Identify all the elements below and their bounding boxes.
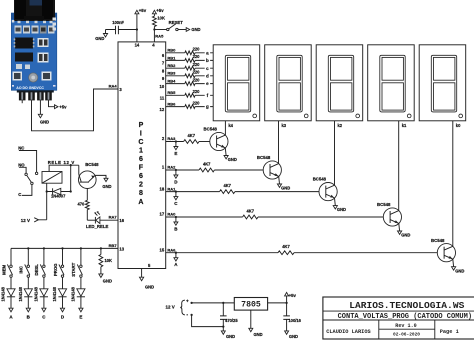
capacitor 470/25	[220, 303, 238, 331]
transistor Q6 BC548 (relay driver)	[79, 162, 100, 189]
svg-text:220: 220	[193, 47, 201, 52]
svg-text:C: C	[138, 139, 143, 146]
svg-text:GND: GND	[102, 184, 111, 189]
svg-text:12: 12	[160, 107, 165, 112]
svg-text:220: 220	[193, 89, 201, 94]
transistor Q2 BC548	[257, 155, 282, 179]
ground (7805 common)	[249, 310, 263, 337]
node D (PROG)	[60, 297, 64, 320]
svg-text:-: -	[186, 312, 188, 318]
svg-text:GND: GND	[254, 332, 263, 337]
svg-text:RB3: RB3	[167, 71, 176, 76]
pin 13 RB7 labels	[109, 243, 125, 252]
7-segment display DISP2 (k1)	[368, 45, 415, 128]
svg-text:k2: k2	[338, 123, 343, 128]
power +5v (pin14)	[135, 8, 147, 29]
svg-text:INC: INC	[19, 266, 24, 273]
node 12 V input terminals	[166, 299, 193, 318]
7-segment display DISP4 (k3)	[265, 45, 312, 128]
node D (pin 1)	[174, 169, 178, 184]
svg-text:GND: GND	[95, 36, 104, 41]
svg-text:RB0: RB0	[167, 48, 176, 53]
svg-text:I: I	[140, 130, 142, 137]
svg-text:MEM: MEM	[1, 264, 6, 274]
svg-text:14: 14	[135, 42, 140, 47]
svg-text:1N4148: 1N4148	[18, 286, 23, 301]
ground (Q3 emitter)	[333, 198, 346, 212]
svg-text:BC548: BC548	[204, 127, 218, 132]
resistor 220 segment c (pin 8 RB2)	[162, 62, 213, 73]
transistor Q5 BC548	[431, 238, 456, 262]
capacitor C1 100nF	[106, 20, 137, 34]
node C relay common	[18, 176, 33, 197]
svg-text:11: 11	[160, 96, 165, 101]
diode 1N4148 (START)	[71, 277, 85, 301]
svg-text:+5v: +5v	[59, 105, 67, 110]
switch RESET	[154, 20, 183, 31]
svg-text:220: 220	[193, 100, 201, 105]
node E (START)	[79, 297, 83, 320]
svg-text:GND: GND	[401, 233, 410, 238]
svg-text:k4: k4	[228, 123, 233, 128]
power +5v (7805 output)	[285, 292, 297, 303]
svg-text:+: +	[186, 299, 189, 304]
svg-text:220: 220	[193, 77, 201, 82]
regulator 7805	[234, 298, 267, 311]
svg-text:+5v: +5v	[289, 293, 297, 298]
svg-text:PROG: PROG	[53, 263, 58, 276]
capacitor 100/16	[283, 303, 301, 331]
wire AO stub	[21, 100, 23, 103]
ground module GND pin	[38, 100, 49, 124]
ground (Q2 emitter)	[277, 176, 290, 190]
svg-text:10K: 10K	[105, 258, 113, 263]
resistor 220 segment b (pin 7 RB1)	[162, 54, 213, 65]
svg-text:+5v: +5v	[139, 8, 147, 13]
diode 1N4148 (INC)	[18, 277, 32, 301]
ground (470/25)	[221, 331, 235, 339]
svg-text:START: START	[71, 262, 76, 276]
svg-text:1N4148: 1N4148	[52, 286, 57, 301]
diode 1N4148 (DESL)	[34, 277, 48, 301]
7-segment display DISP3 (k2)	[316, 45, 363, 128]
svg-text:C: C	[18, 192, 21, 197]
svg-text:02-06-2020: 02-06-2020	[393, 332, 420, 338]
node junction pin14 column	[136, 28, 138, 30]
resistor 4K7 (pin 17 RA0 to Q4 base)	[160, 208, 384, 219]
wire 10K to pin4	[153, 27, 155, 42]
wire RB7 bus	[11, 247, 118, 249]
svg-text:GND: GND	[455, 268, 464, 273]
svg-text:RB5: RB5	[167, 90, 176, 95]
svg-text:RB2: RB2	[167, 63, 176, 68]
resistor 220 segment g (pin 12 RB6)	[160, 100, 214, 111]
title block	[323, 297, 474, 339]
svg-text:b: b	[206, 58, 209, 63]
svg-text:220: 220	[193, 62, 201, 67]
svg-text:BC548: BC548	[257, 155, 271, 160]
svg-text:CONTA_VOLTAS_PROG (CATODO COMU: CONTA_VOLTAS_PROG (CATODO COMUM)	[338, 313, 472, 321]
svg-text:BC548: BC548	[85, 162, 99, 167]
svg-text:GND: GND	[145, 284, 154, 289]
svg-text:13: 13	[119, 247, 124, 252]
wire coil to Q6 collector	[49, 165, 79, 174]
resistor 4K7 (pin 15 RA6 to Q5 base)	[160, 244, 438, 255]
ground (100nF)	[95, 30, 107, 42]
svg-text:AO DO GNDVCC: AO DO GNDVCC	[16, 86, 44, 90]
svg-text:NC: NC	[18, 145, 24, 150]
ground (RESET)	[178, 27, 200, 32]
svg-text:4K7: 4K7	[203, 161, 211, 166]
svg-text:100/16: 100/16	[288, 318, 301, 323]
svg-text:BC548: BC548	[431, 238, 445, 243]
svg-text:4K7: 4K7	[188, 133, 196, 138]
svg-text:12 V: 12 V	[21, 218, 30, 223]
svg-text:RA7: RA7	[109, 215, 118, 220]
resistor 4K7 (pin 2 RA3 to Q1 base)	[162, 133, 210, 144]
resistor 470 (Q6 base)	[77, 189, 89, 221]
resistor 220 segment a (pin 6 RB0)	[162, 47, 213, 58]
wire display k0 to Q5 collector	[452, 121, 454, 247]
svg-text:BC548: BC548	[377, 202, 391, 207]
svg-text:Rev 1.0: Rev 1.0	[395, 323, 416, 329]
svg-text:GND: GND	[103, 278, 112, 283]
svg-text:g: g	[206, 104, 209, 109]
svg-text:12 V: 12 V	[166, 304, 175, 309]
svg-text:E: E	[79, 315, 82, 320]
transistor Q1 BC548	[204, 127, 228, 151]
svg-text:1N4148: 1N4148	[1, 286, 6, 301]
7-segment display DISP1 (k0)	[419, 45, 466, 128]
svg-text:RA2: RA2	[167, 165, 176, 170]
svg-text:4K7: 4K7	[282, 244, 290, 249]
svg-text:4K7: 4K7	[223, 183, 231, 188]
switch START	[71, 247, 82, 277]
svg-text:RA3: RA3	[167, 136, 176, 141]
svg-text:RA0: RA0	[167, 212, 176, 217]
7-segment display DISP5 (k4)	[213, 45, 260, 128]
svg-text:18: 18	[160, 186, 165, 191]
sensor module (IR speed sensor board)	[11, 0, 57, 100]
wire 7805 output	[268, 302, 287, 304]
svg-text:1N4148: 1N4148	[34, 286, 39, 301]
svg-text:P: P	[139, 122, 144, 129]
svg-text:2: 2	[139, 182, 143, 189]
node A (MEM)	[9, 297, 13, 320]
svg-text:1: 1	[139, 147, 143, 154]
svg-text:GND: GND	[281, 186, 290, 191]
transistor Q3 BC548	[313, 177, 338, 201]
svg-text:BC548: BC548	[313, 177, 327, 182]
node C (pin 18)	[174, 190, 178, 205]
power +5v (10K pullup)	[152, 8, 164, 16]
wire DO to PIC pin3 (RA4)	[32, 89, 119, 131]
resistor 10K (MCLR pullup)	[153, 16, 165, 27]
svg-text:16: 16	[119, 218, 124, 223]
svg-text:LED_RELE: LED_RELE	[86, 224, 109, 229]
svg-text:17: 17	[160, 212, 165, 217]
power +5v module VCC pin	[49, 100, 68, 109]
svg-text:RA1: RA1	[167, 186, 176, 191]
svg-text:470/25: 470/25	[225, 318, 238, 323]
ground (Q1 emitter)	[224, 148, 237, 162]
svg-text:1N4148: 1N4148	[71, 286, 76, 301]
svg-text:k3: k3	[282, 123, 287, 128]
svg-text:10: 10	[160, 84, 165, 89]
svg-text:100nF: 100nF	[112, 20, 124, 25]
svg-text:CLAUDIO LARIOS: CLAUDIO LARIOS	[326, 329, 371, 335]
svg-text:470: 470	[77, 201, 85, 206]
svg-text:7805: 7805	[241, 300, 261, 309]
svg-text:GND: GND	[289, 334, 298, 339]
ground (10K)	[99, 267, 112, 284]
svg-text:d: d	[206, 73, 209, 78]
svg-text:RB1: RB1	[167, 55, 176, 60]
svg-text:+5v: +5v	[156, 8, 164, 13]
svg-text:E: E	[174, 151, 177, 156]
svg-text:4K7: 4K7	[247, 208, 255, 213]
svg-text:6: 6	[139, 156, 143, 163]
node B (pin 17)	[174, 216, 178, 231]
wire display k4 to Q1 collector	[224, 121, 226, 135]
switch INC	[19, 247, 30, 277]
svg-text:GND: GND	[226, 334, 235, 339]
svg-text:RA6: RA6	[167, 247, 176, 252]
wire pin14	[136, 30, 138, 42]
diode 1N4007 flyback	[46, 188, 72, 198]
svg-text:RB6: RB6	[167, 102, 176, 107]
node NO relay contact	[18, 163, 27, 176]
switch PROG	[53, 247, 64, 277]
svg-text:RB4: RB4	[167, 79, 176, 84]
resistor 220 segment e (pin 10 RB4)	[160, 77, 214, 88]
svg-text:RB7: RB7	[109, 243, 118, 248]
svg-text:1N4007: 1N4007	[51, 194, 66, 199]
svg-text:6: 6	[139, 173, 143, 180]
diode 1N4148 (MEM)	[1, 277, 15, 301]
svg-text:RESET: RESET	[169, 20, 184, 25]
node C (DESL)	[42, 297, 46, 320]
svg-text:LARIOS.TECNOLOGIA.WS: LARIOS.TECNOLOGIA.WS	[349, 300, 464, 311]
op-amp U1 PIC16F628A body	[118, 33, 166, 268]
node 12 V supply	[21, 183, 47, 223]
pin 3 RA4 labels	[109, 84, 123, 92]
resistor 10K pulldown	[99, 247, 112, 267]
wire - to ground rail	[192, 315, 224, 327]
ground (PIC pin 5)	[140, 269, 155, 290]
svg-text:Page 1: Page 1	[440, 329, 459, 335]
resistor 220 segment f (pin 11 RB5)	[160, 89, 213, 100]
wire display k1 to Q4 collector	[398, 121, 400, 211]
pin 16 RA7 labels	[109, 215, 125, 223]
transistor Q4 BC548	[377, 202, 402, 226]
svg-text:GND: GND	[191, 27, 200, 32]
svg-text:RA5: RA5	[155, 33, 164, 38]
svg-text:GND: GND	[228, 157, 237, 162]
ground (Q4 emitter)	[398, 223, 411, 237]
ground (Q5 emitter)	[452, 259, 465, 273]
svg-text:F: F	[139, 165, 144, 172]
wire + to 7805 input	[192, 302, 235, 304]
svg-text:k0: k0	[456, 123, 461, 128]
resistor 4K7 (pin 1 RA2 to Q2 base)	[162, 161, 263, 172]
svg-text:GND: GND	[40, 120, 49, 125]
wire display k2 to Q3 collector	[334, 121, 336, 185]
node B (INC)	[26, 297, 30, 320]
svg-text:k1: k1	[402, 123, 407, 128]
svg-text:GND: GND	[337, 207, 346, 212]
node A (pin 15)	[174, 252, 178, 267]
svg-text:DESL: DESL	[34, 264, 39, 276]
LED LED_RELE	[86, 211, 118, 229]
node E (pin 2)	[174, 140, 178, 155]
svg-text:220: 220	[193, 70, 201, 75]
resistor 220 segment d (pin 9 RB3)	[162, 70, 213, 81]
ground (Q6 emitter)	[95, 175, 111, 189]
svg-text:10K: 10K	[157, 16, 165, 21]
wire display k3 to Q2 collector	[278, 121, 280, 164]
svg-text:8: 8	[139, 190, 143, 197]
svg-text:220: 220	[193, 54, 201, 59]
switch MEM	[1, 248, 12, 277]
resistor 4K7 (pin 18 RA1 to Q3 base)	[160, 183, 319, 194]
svg-text:RA4: RA4	[109, 84, 118, 89]
wire junction to diode	[70, 165, 72, 191]
ground (100/16)	[285, 331, 298, 339]
relay K1 coil RELE 12 V	[42, 160, 74, 183]
svg-text:A: A	[138, 199, 143, 206]
svg-text:15: 15	[160, 247, 165, 252]
node NC relay contact	[18, 145, 38, 174]
switch DESL	[34, 247, 45, 277]
diode 1N4148 (PROG)	[52, 277, 66, 301]
